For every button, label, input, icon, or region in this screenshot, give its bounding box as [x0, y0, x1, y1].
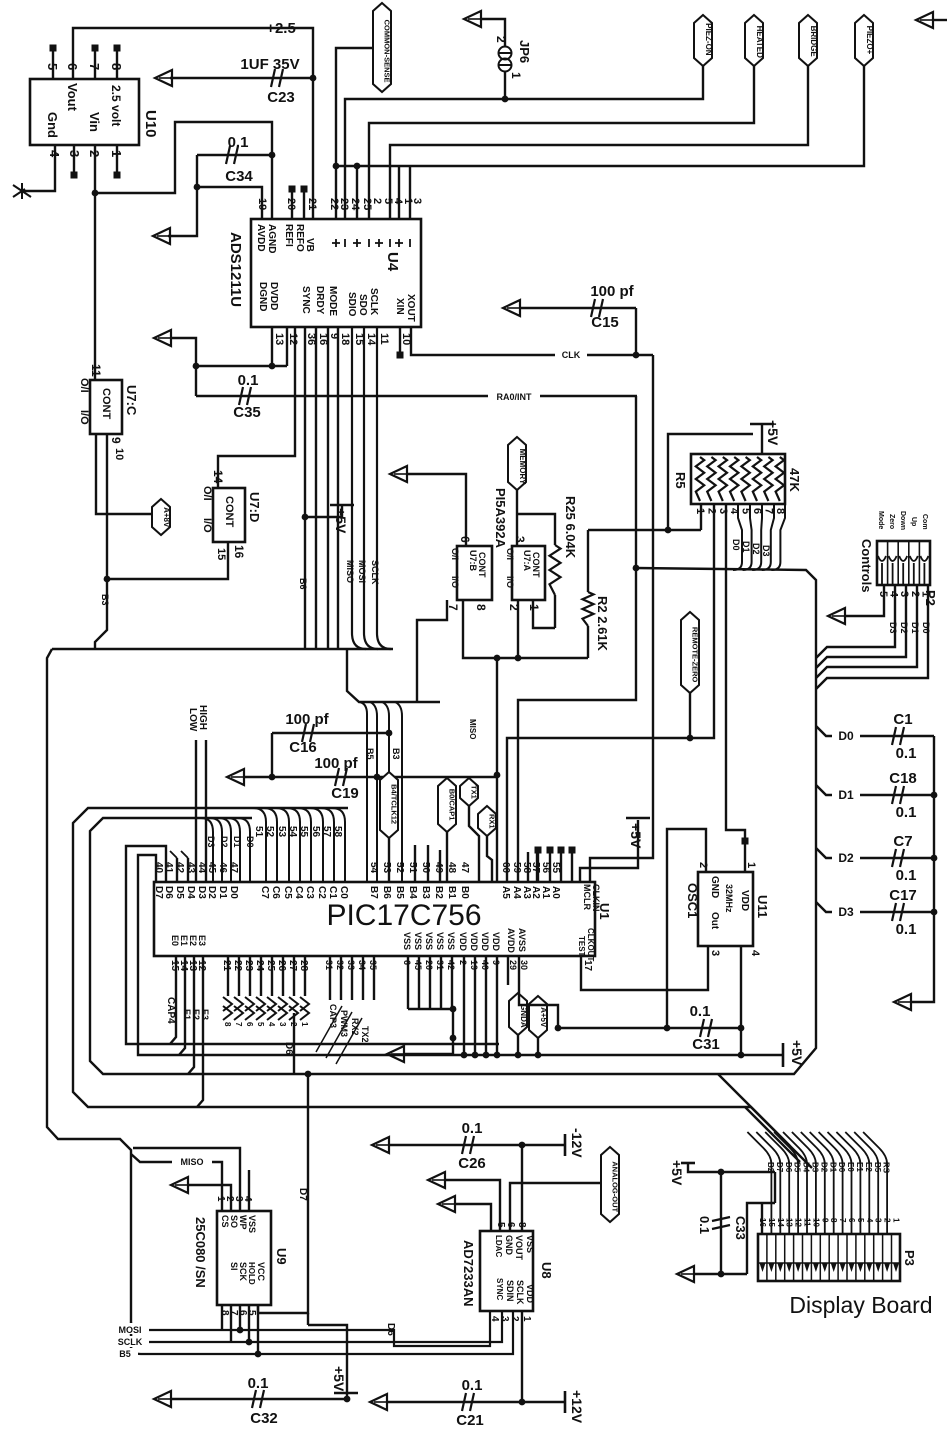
svg-text:C2: C2	[316, 886, 327, 899]
label RA0/INT	[488, 390, 540, 402]
svg-text:49: 49	[433, 862, 444, 874]
capacitor C35	[196, 395, 637, 397]
svg-text:21: 21	[306, 198, 318, 210]
svg-text:0.1: 0.1	[462, 1120, 483, 1137]
svg-text:C18: C18	[889, 770, 917, 787]
svg-text:D1: D1	[232, 836, 242, 848]
svg-text:8: 8	[223, 1022, 232, 1027]
svg-text:27: 27	[287, 960, 298, 972]
svg-text:MODE: MODE	[327, 286, 338, 316]
wire D6 from PIC	[293, 1013, 295, 1074]
svg-text:COMMON-SENSE: COMMON-SENSE	[383, 20, 392, 83]
svg-text:MISO: MISO	[180, 1157, 203, 1167]
svg-text:D0: D0	[731, 539, 741, 551]
svg-text:CONT: CONT	[100, 388, 112, 419]
svg-text:52: 52	[394, 862, 405, 874]
tag A+8V	[152, 499, 170, 535]
svg-text:D3: D3	[206, 836, 216, 848]
svg-text:23: 23	[338, 198, 350, 210]
svg-text:1: 1	[509, 72, 523, 79]
svg-text:B4/TCLK12: B4/TCLK12	[390, 784, 399, 824]
R5 pin2 wire to REMOTE-ZERO	[507, 504, 714, 882]
svg-text:4: 4	[749, 950, 761, 957]
svg-text:100 pf: 100 pf	[285, 711, 329, 728]
svg-text:47: 47	[228, 862, 239, 874]
U4 pin16 wire down	[315, 327, 317, 649]
svg-text:20: 20	[424, 960, 434, 970]
svg-text:C1: C1	[327, 886, 338, 899]
U10 pin 5 stub	[52, 50, 54, 79]
svg-text:D1: D1	[828, 1162, 837, 1173]
svg-text:D3: D3	[196, 886, 207, 899]
svg-text:B5: B5	[365, 748, 375, 760]
svg-text:C31: C31	[692, 1036, 720, 1053]
power +5V C32	[344, 1396, 351, 1403]
svg-text:5: 5	[856, 1218, 865, 1223]
svg-text:54: 54	[368, 862, 379, 874]
wire Vin to U4 AGND loop	[95, 122, 272, 219]
arrow C33 gnd	[677, 1266, 694, 1282]
svg-text:59: 59	[511, 862, 522, 874]
svg-text:MISO: MISO	[345, 560, 355, 583]
capacitor C21	[370, 1394, 387, 1410]
svg-text:C26: C26	[458, 1155, 486, 1172]
OSC1 pin4 wire	[740, 946, 742, 1055]
svg-text:Out: Out	[709, 912, 720, 930]
arrow JP6 left	[464, 11, 481, 27]
svg-text:21: 21	[221, 960, 232, 972]
svg-text:3: 3	[411, 198, 423, 204]
svg-text:I/O: I/O	[201, 518, 213, 533]
OSC1 pin1 stub	[744, 845, 746, 872]
svg-text:U7:B: U7:B	[468, 550, 478, 572]
svg-text:PI5A392A: PI5A392A	[493, 488, 508, 549]
svg-text:6: 6	[65, 63, 80, 70]
svg-text:AVSS: AVSS	[517, 928, 527, 952]
svg-text:25C080 /SN: 25C080 /SN	[193, 1217, 208, 1288]
resistor R25	[517, 514, 555, 545]
svg-text:A+5V: A+5V	[539, 1007, 548, 1028]
svg-text:TEST: TEST	[577, 936, 586, 957]
svg-text:E2: E2	[864, 1162, 873, 1172]
svg-text:RX1: RX1	[488, 814, 497, 829]
svg-text:47K: 47K	[787, 468, 802, 492]
svg-text:D4: D4	[185, 886, 196, 899]
svg-text:56: 56	[310, 826, 321, 838]
P3 wires	[747, 1132, 771, 1234]
wire bus ring R2 blob	[90, 568, 816, 1074]
svg-text:REFI: REFI	[283, 224, 294, 247]
tag COMMON-SENSE	[373, 3, 391, 92]
svg-text:8: 8	[829, 1218, 838, 1223]
svg-text:R5: R5	[673, 472, 688, 489]
svg-text:45: 45	[413, 960, 423, 970]
svg-text:D2: D2	[819, 1162, 828, 1173]
jumper JP6	[499, 47, 512, 60]
wire D7	[258, 1074, 308, 1313]
svg-text:+5V: +5V	[669, 1160, 685, 1186]
wire RA0/INT down	[518, 396, 636, 882]
svg-text:33: 33	[346, 960, 356, 970]
svg-text:TX1: TX1	[470, 785, 479, 799]
svg-text:57: 57	[530, 862, 541, 874]
wire bus ring outer left	[52, 648, 393, 650]
svg-text:31: 31	[324, 960, 334, 970]
svg-text:RS: RS	[882, 1162, 891, 1174]
svg-text:D6: D6	[784, 1162, 793, 1173]
R5 pin1 wire	[700, 504, 702, 530]
svg-text:D0: D0	[921, 622, 931, 634]
svg-text:VSS: VSS	[247, 1215, 257, 1233]
op-amp U7:C	[90, 380, 122, 434]
svg-text:CAP4: CAP4	[165, 997, 176, 1024]
svg-text:SI: SI	[229, 1262, 239, 1271]
svg-text:9: 9	[820, 1218, 829, 1223]
svg-text:D5: D5	[174, 886, 185, 899]
svg-text:1: 1	[892, 1218, 901, 1223]
svg-text:D4: D4	[802, 1162, 811, 1173]
svg-text:D1: D1	[217, 886, 228, 899]
svg-text:6: 6	[402, 960, 412, 965]
svg-text:GND: GND	[504, 1235, 514, 1256]
wire U7:D output	[107, 542, 228, 579]
svg-text:MISO: MISO	[468, 719, 477, 739]
svg-text:B3: B3	[391, 748, 401, 760]
svg-text:5: 5	[246, 1310, 257, 1316]
svg-text:A5: A5	[500, 886, 511, 899]
power -12V	[564, 1134, 567, 1156]
svg-text:14: 14	[776, 1218, 785, 1227]
arrow U7:B top left	[390, 466, 407, 482]
svg-text:Controls: Controls	[859, 539, 874, 592]
power +5V right	[782, 1043, 785, 1067]
svg-text:D2: D2	[838, 851, 854, 865]
svg-text:Com: Com	[921, 514, 928, 530]
svg-text:24: 24	[254, 960, 265, 972]
svg-text:28: 28	[298, 960, 309, 972]
svg-text:-12V: -12V	[569, 1128, 585, 1158]
svg-text:41: 41	[163, 862, 174, 874]
svg-text:B6: B6	[298, 578, 308, 590]
PIC top pins A stubs	[527, 852, 529, 882]
svg-text:Display Board: Display Board	[789, 1292, 932, 1318]
svg-text:C6: C6	[270, 886, 281, 899]
svg-text:B5: B5	[394, 886, 405, 899]
wire JP6	[481, 19, 505, 46]
capacitor C34	[197, 154, 272, 156]
svg-text:B5: B5	[873, 1162, 882, 1173]
svg-text:C35: C35	[233, 404, 261, 421]
svg-text:C15: C15	[591, 314, 619, 331]
svg-text:SCLK: SCLK	[118, 1337, 143, 1347]
svg-text:6: 6	[458, 536, 472, 543]
tag MEMORY	[508, 437, 526, 490]
op-amp U7:A	[512, 546, 545, 600]
svg-text:0.1: 0.1	[896, 804, 917, 821]
svg-text:1: 1	[919, 591, 931, 597]
svg-text:E2: E2	[188, 935, 198, 946]
svg-text:4: 4	[47, 150, 62, 158]
oscillator OSC1 U11	[698, 872, 753, 946]
wire bus diagonal to P3	[745, 1107, 800, 1162]
capacitor C7	[892, 849, 904, 867]
PIC top pins D5 D4 stubs	[176, 858, 178, 882]
svg-text:12: 12	[196, 960, 207, 972]
svg-text:VOUT: VOUT	[514, 1235, 524, 1261]
microcontroller U1 PIC17C756	[154, 882, 595, 956]
PIC bottom middle pins	[329, 956, 331, 1000]
svg-text:U9: U9	[274, 1248, 289, 1265]
svg-text:7: 7	[838, 1218, 847, 1223]
svg-text:WP: WP	[238, 1215, 248, 1230]
connector P3	[758, 1234, 900, 1281]
svg-text:16: 16	[232, 545, 246, 559]
wire MEMORY net	[516, 490, 518, 546]
U4 REFI stub	[291, 192, 293, 219]
dac U8 AD7233AN	[480, 1231, 533, 1311]
svg-text:12: 12	[287, 333, 299, 345]
arrow U9	[171, 1177, 188, 1193]
svg-text:13: 13	[785, 1218, 794, 1227]
svg-text:15: 15	[215, 548, 227, 560]
svg-text:3: 3	[874, 1218, 883, 1223]
wire C33 to P3 pin	[747, 1203, 775, 1274]
svg-text:E3: E3	[197, 935, 207, 946]
svg-text:54: 54	[287, 826, 298, 838]
tag REMOTE-ZERO	[681, 612, 699, 693]
svg-text:U10: U10	[142, 110, 159, 138]
P2 wires D0-D3	[816, 585, 895, 658]
svg-text:55: 55	[298, 826, 309, 838]
power +12V	[564, 1391, 567, 1413]
svg-text:5: 5	[256, 1022, 265, 1027]
PIC top pins port D taps	[201, 818, 213, 882]
svg-text:4: 4	[489, 1316, 500, 1322]
svg-text:SO: SO	[229, 1215, 239, 1228]
svg-text:2.5 volt: 2.5 volt	[109, 85, 123, 126]
U4 XIN stub	[399, 327, 401, 352]
wire VSS	[521, 1145, 523, 1231]
svg-text:AD7233AN: AD7233AN	[461, 1240, 476, 1306]
svg-text:0.1: 0.1	[690, 1003, 711, 1020]
PIC VDD pins	[463, 956, 465, 1055]
svg-text:14: 14	[365, 333, 377, 346]
svg-text:7: 7	[87, 63, 102, 70]
svg-text:100 pf: 100 pf	[314, 755, 358, 772]
svg-text:15: 15	[767, 1218, 776, 1227]
svg-text:Vin: Vin	[87, 112, 102, 132]
PIC square stubs	[537, 852, 539, 882]
arrow U8 ldac	[438, 1196, 455, 1212]
svg-text:O/I: O/I	[201, 486, 213, 501]
svg-text:U4: U4	[384, 252, 401, 272]
wire VOUT to ANALOG-OUT	[510, 1183, 601, 1231]
svg-text:9: 9	[109, 437, 123, 444]
svg-text:JP6: JP6	[517, 40, 532, 63]
svg-text:2: 2	[705, 508, 717, 514]
wire U7:A pin1 to R25	[533, 600, 555, 628]
svg-text:Vout: Vout	[65, 83, 80, 112]
svg-text:D7: D7	[297, 1188, 308, 1201]
svg-text:11: 11	[89, 364, 103, 377]
svg-text:VSS: VSS	[525, 1235, 535, 1253]
svg-text:10: 10	[811, 1218, 820, 1227]
svg-text:C21: C21	[456, 1412, 484, 1429]
arrow AGND left	[153, 228, 170, 244]
svg-text:U8: U8	[539, 1262, 554, 1279]
svg-text:3: 3	[709, 950, 721, 956]
svg-text:Gnd: Gnd	[45, 112, 60, 138]
svg-text:42: 42	[446, 960, 456, 970]
svg-text:D2: D2	[751, 543, 761, 555]
svg-text:B4: B4	[407, 886, 418, 899]
svg-text:B6: B6	[381, 886, 392, 899]
svg-text:SYNC: SYNC	[495, 1278, 504, 1300]
capacitor C16	[272, 732, 389, 734]
svg-text:D1: D1	[910, 622, 920, 634]
wire input stubs	[356, 166, 358, 219]
svg-text:7: 7	[762, 508, 774, 514]
svg-text:60: 60	[500, 862, 511, 874]
svg-text:C7: C7	[893, 833, 912, 850]
svg-text:B3: B3	[420, 886, 431, 899]
wire bus taps to port B	[360, 702, 367, 882]
tag PIEZ-ON	[694, 15, 712, 66]
tag B0/CAP1	[438, 778, 456, 832]
svg-text:VSS: VSS	[402, 932, 412, 950]
capacitor C31	[558, 1027, 741, 1029]
svg-text:E1: E1	[182, 1009, 192, 1020]
wire D3 net	[816, 902, 912, 912]
resistor network R5	[691, 454, 785, 504]
svg-text:D6: D6	[385, 1323, 396, 1336]
capacitor C26	[372, 1137, 389, 1153]
svg-text:CONT: CONT	[531, 552, 541, 578]
svg-text:Zero: Zero	[888, 514, 895, 529]
arrow C23 left	[155, 70, 172, 86]
wire REMOTE-ZERO stub	[689, 693, 691, 738]
wire HIGH	[205, 740, 207, 882]
wire D net vertical right	[911, 736, 934, 1002]
svg-text:D6: D6	[283, 1042, 294, 1055]
op-amp U7:B	[457, 546, 492, 600]
svg-text:0.1: 0.1	[697, 1216, 712, 1234]
wire D1 net	[816, 785, 912, 795]
svg-text:11: 11	[378, 333, 390, 345]
capacitor C15	[503, 300, 520, 316]
svg-text:A2: A2	[530, 886, 541, 899]
svg-text:D2: D2	[219, 836, 229, 848]
svg-text:VDD: VDD	[491, 932, 501, 952]
U4 XOUT clock wire	[411, 327, 653, 355]
PIC top pins port C taps	[253, 808, 266, 882]
svg-text:50: 50	[420, 862, 431, 874]
svg-text:45: 45	[206, 862, 217, 874]
svg-text:O/I: O/I	[78, 378, 90, 393]
svg-text:D3: D3	[888, 622, 898, 634]
svg-text:DVDD: DVDD	[268, 282, 279, 310]
svg-text:C16: C16	[289, 739, 317, 756]
svg-text:40: 40	[480, 960, 490, 970]
svg-text:VB: VB	[304, 238, 315, 252]
svg-text:D7: D7	[153, 886, 164, 899]
wire LOW	[195, 740, 197, 882]
svg-text:SDIN: SDIN	[505, 1280, 515, 1302]
svg-text:A+8V: A+8V	[162, 507, 171, 528]
wire +2.5 net	[73, 28, 313, 219]
svg-text:19: 19	[469, 960, 479, 970]
svg-text:B2: B2	[433, 886, 444, 899]
R5 pin3 wire	[726, 504, 745, 845]
svg-text:Down: Down	[899, 511, 906, 530]
svg-text:0.1: 0.1	[248, 1375, 269, 1392]
svg-text:E1: E1	[855, 1162, 864, 1172]
svg-text:U7:A: U7:A	[522, 550, 532, 572]
svg-text:2: 2	[883, 1218, 892, 1223]
wire AVSS to C31	[519, 985, 558, 1028]
svg-text:3: 3	[513, 536, 527, 543]
capacitor C17	[892, 903, 904, 921]
wire COMMON-SENSE net	[336, 48, 373, 219]
tag RX1	[478, 806, 496, 836]
svg-text:VCC: VCC	[256, 1262, 266, 1282]
arrow P2 common	[828, 608, 845, 624]
svg-text:58: 58	[332, 826, 343, 838]
svg-text:29: 29	[508, 960, 518, 970]
svg-text:P3: P3	[902, 1250, 917, 1266]
ground	[22, 145, 55, 191]
svg-text:6: 6	[245, 1022, 254, 1027]
svg-text:55: 55	[550, 862, 561, 874]
wire C34 left branch to AVDD	[168, 155, 197, 236]
svg-text:ANALOG-OUT: ANALOG-OUT	[611, 1161, 620, 1212]
U10 pin 8 stub	[116, 50, 118, 79]
svg-text:51: 51	[407, 862, 418, 874]
arrow VSS gnd	[387, 1046, 404, 1062]
arrow U8 gnd	[428, 1172, 445, 1188]
svg-text:C33: C33	[733, 1216, 748, 1240]
svg-text:24: 24	[349, 198, 361, 211]
wire bus ring R1	[73, 808, 812, 1168]
svg-text:ADS1211U: ADS1211U	[227, 232, 244, 307]
svg-text:VSS: VSS	[413, 932, 423, 950]
svg-text:B5: B5	[119, 1349, 131, 1359]
wire U7:C output to A+8V	[96, 434, 155, 514]
U4 VB stub	[303, 192, 305, 219]
U10 pin 7 stub	[94, 50, 96, 79]
tag BRIDGE	[799, 15, 817, 66]
arrow C35	[154, 330, 171, 346]
label CLK	[555, 349, 587, 360]
svg-text:OSC1: OSC1	[685, 883, 700, 918]
svg-text:U7:C: U7:C	[124, 385, 139, 416]
svg-text:D5: D5	[793, 1162, 802, 1173]
power +5V R5	[750, 423, 774, 426]
svg-text:1: 1	[745, 862, 757, 868]
svg-text:A4: A4	[511, 886, 522, 899]
svg-text:0.1: 0.1	[896, 867, 917, 884]
R5 pins 4-8 wires into bus	[733, 504, 742, 570]
svg-text:I/O: I/O	[78, 410, 90, 425]
svg-text:100 pf: 100 pf	[590, 283, 634, 300]
eeprom U9 25C080	[217, 1211, 271, 1305]
svg-text:2: 2	[371, 198, 383, 204]
svg-text:CONT: CONT	[223, 496, 235, 527]
svg-text:E0: E0	[170, 935, 180, 946]
svg-text:D3: D3	[761, 545, 771, 557]
U10 pin 3 stub	[73, 145, 75, 172]
svg-text:CLK: CLK	[562, 350, 581, 360]
